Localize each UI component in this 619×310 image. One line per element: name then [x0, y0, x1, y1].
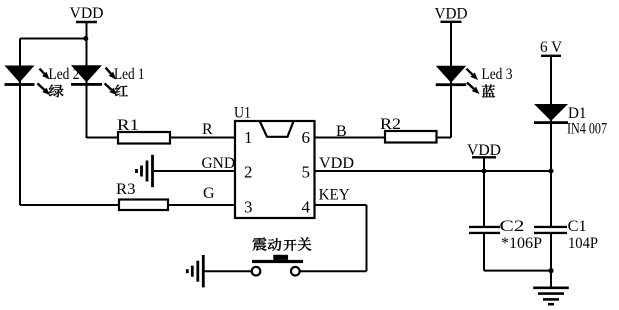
- svg-text:KEY: KEY: [319, 187, 350, 204]
- svg-text:1: 1: [244, 128, 253, 147]
- svg-text:R: R: [202, 121, 213, 138]
- svg-text:C1: C1: [568, 218, 587, 235]
- svg-text:B: B: [336, 123, 347, 140]
- svg-text:IN4 007: IN4 007: [567, 121, 607, 138]
- svg-text:D1: D1: [568, 105, 587, 122]
- svg-text:GND: GND: [202, 155, 236, 172]
- svg-text:VDD: VDD: [70, 5, 104, 22]
- svg-text:Led 1: Led 1: [114, 66, 145, 83]
- svg-text:104P: 104P: [568, 235, 598, 252]
- svg-text:2: 2: [244, 163, 253, 182]
- svg-text:4: 4: [302, 198, 311, 217]
- svg-text:G: G: [203, 185, 215, 202]
- svg-text:VDD: VDD: [319, 155, 354, 172]
- svg-text:6: 6: [302, 128, 311, 147]
- svg-text:3: 3: [244, 198, 253, 217]
- svg-text:6 V: 6 V: [540, 39, 562, 56]
- svg-text:*106P: *106P: [501, 235, 542, 252]
- svg-text:5: 5: [302, 163, 311, 182]
- svg-text:VDD: VDD: [435, 6, 468, 23]
- svg-text:C2: C2: [500, 218, 525, 235]
- svg-text:U1: U1: [234, 105, 251, 122]
- svg-text:R3: R3: [116, 181, 136, 198]
- svg-text:Led 3: Led 3: [482, 66, 513, 83]
